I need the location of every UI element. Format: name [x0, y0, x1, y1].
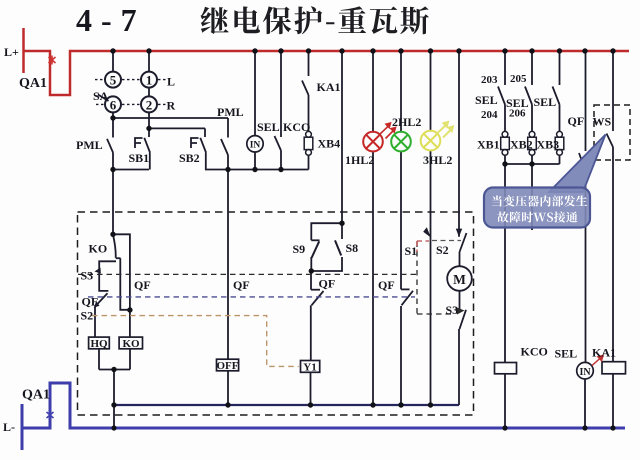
link XB4 lower lead	[308, 155, 310, 169]
coil KCO lower lead	[504, 374, 506, 428]
meter SEL-IN lower lead	[584, 380, 586, 429]
contact QF (Y1 column) blade	[312, 291, 324, 305]
lamp 2HL2 upper lead	[400, 51, 402, 133]
junction node KO branch	[110, 232, 115, 237]
linkage QF (purple dashed)	[88, 296, 415, 298]
link XB2 upper lead	[531, 105, 533, 132]
contact SEL-205 upper lead	[531, 51, 533, 85]
svg-text:S3: S3	[446, 303, 459, 317]
lamp 3HL2 (yellow)	[421, 131, 441, 151]
wire: rail to KO branch node	[112, 170, 114, 235]
svg-text:S2: S2	[436, 243, 449, 257]
svg-text:203: 203	[481, 74, 498, 86]
svg-text:4-7: 4-7	[76, 2, 146, 38]
svg-text:204: 204	[481, 109, 498, 121]
switch PML1 blade	[107, 139, 113, 153]
wire: bus to SA contact 5	[112, 51, 114, 72]
linkage S1 (red dashes)	[417, 241, 429, 252]
contact QF (Y1 column) upper lead	[310, 271, 312, 290]
contact QF (HQ column) blade	[95, 293, 108, 307]
contact SA-6 circle	[105, 96, 121, 112]
motor M upper lead	[459, 252, 461, 266]
wire: QF contact to rail	[400, 306, 402, 405]
title 继电保护-重瓦斯 (outline paths)	[201, 6, 429, 34]
wire: L+ bus with QA1 step	[24, 51, 629, 95]
wire: PML1/SB1 join rail	[113, 169, 149, 171]
fault mark on QA1 (red asterisk)	[49, 56, 56, 65]
callout text	[492, 195, 587, 206]
svg-text:HQ: HQ	[90, 338, 108, 350]
wire: bus to SA contact 1	[148, 51, 150, 72]
lamp 2HL2 lead to QF contact	[400, 151, 402, 290]
svg-text:KCO: KCO	[283, 120, 310, 134]
wire: XB join to KCO coil	[504, 164, 506, 363]
svg-text:XB3: XB3	[537, 138, 560, 152]
pushbutton SB1 actuator	[135, 138, 143, 148]
contact S9 blade	[312, 241, 320, 258]
contact KA1 lower lead	[308, 95, 310, 132]
wire: XB2 column stub under callout	[531, 164, 533, 230]
linkage S3 vertical + to S3 contact	[417, 242, 452, 315]
link XB1 upper lead	[504, 105, 506, 132]
svg-text:M: M	[453, 272, 466, 287]
wire: SA 2 to node	[148, 112, 150, 128]
switch PML1 lower lead	[112, 153, 114, 170]
svg-text:IN: IN	[579, 367, 591, 378]
contact S3 blade (motor column)	[460, 310, 467, 329]
svg-text:QF: QF	[319, 277, 336, 291]
contact SEL-3 blade	[553, 87, 560, 105]
svg-text:5: 5	[110, 73, 117, 88]
contact QF (2HL2 column) blade	[402, 291, 414, 306]
junction dots XB join	[502, 161, 507, 166]
svg-text:S3: S3	[81, 269, 94, 283]
pushbutton SB1 lower lead	[149, 153, 151, 170]
svg-text:Y1: Y1	[303, 361, 316, 373]
relay WS dashed box	[594, 105, 630, 160]
junction node S8/S9 bottom	[309, 268, 314, 273]
wire: SA 1 to 2	[148, 88, 150, 97]
motor M lower lead	[459, 291, 461, 309]
contact SA-5 circle	[105, 72, 121, 88]
arrows at 3HL2	[437, 122, 453, 138]
contact S2 upper lead (motor column)	[458, 51, 460, 237]
linkage QF blade arrowhead (left)	[94, 301, 100, 308]
svg-text:SB1: SB1	[129, 151, 150, 165]
wire: KO blade tick	[116, 257, 121, 259]
link XB3 upper lead	[559, 105, 561, 132]
svg-text:IN: IN	[250, 140, 261, 150]
svg-text:KO: KO	[89, 242, 108, 256]
fault mark on QA1 bottom (blue asterisk)	[47, 411, 54, 420]
wire: join to inner rail and L- bus	[113, 370, 115, 429]
link XB2 lower lead	[531, 155, 533, 164]
wire: S9 to join node	[310, 257, 312, 271]
switch SA handle	[98, 95, 109, 102]
wire: S8 to join node	[311, 257, 342, 271]
svg-text:1: 1	[146, 73, 153, 88]
svg-text:PML: PML	[76, 138, 103, 152]
link XB2	[528, 131, 537, 155]
svg-text:QF: QF	[233, 278, 250, 292]
contact SA-1 circle	[141, 72, 157, 88]
meter SEL upper lead	[254, 51, 256, 136]
meter SEL lower lead	[254, 152, 256, 170]
contact KCO lower lead	[280, 151, 282, 170]
wire: node to PML2 branch	[113, 117, 228, 119]
svg-text:1HL2: 1HL2	[345, 153, 374, 167]
svg-text:QF: QF	[82, 295, 99, 309]
contact QF (Y1 column) tick	[311, 289, 320, 291]
linkage S2 (orange dashed)	[92, 316, 299, 367]
svg-text:L-: L-	[3, 420, 15, 434]
pushbutton SB1 upper lead	[148, 128, 150, 137]
svg-text:2: 2	[146, 97, 153, 112]
svg-text:KA1: KA1	[317, 80, 341, 94]
junction node HQ/KO join	[111, 367, 116, 372]
svg-text:L: L	[167, 75, 175, 89]
svg-text:2HL2: 2HL2	[392, 115, 421, 129]
junction dots on inner rail	[111, 402, 116, 407]
linkage S1 arrowhead	[423, 227, 431, 237]
svg-text:KCO: KCO	[521, 345, 548, 359]
contact S8 blade	[335, 240, 341, 255]
wire: node to SB2 branch	[149, 127, 205, 129]
svg-text:PML: PML	[217, 105, 244, 119]
svg-text:S9: S9	[293, 242, 306, 256]
contact SEL-203 upper lead	[504, 51, 506, 85]
junction node S8/S9 top	[339, 221, 344, 226]
svg-text:206: 206	[509, 108, 526, 120]
svg-text:205: 205	[510, 73, 527, 85]
contact WS upper lead	[612, 51, 614, 131]
contact S8 upper lead	[341, 223, 343, 239]
linkage S3 (black dashed)	[78, 273, 417, 275]
switch PML2 upper lead	[227, 118, 229, 138]
lamp 3HL2 lower lead to rail	[430, 150, 432, 405]
wire: SA 6 to node	[112, 112, 114, 118]
coil HQ upper lead	[94, 307, 96, 337]
switch PML2 blade	[221, 139, 228, 155]
svg-text:XB4: XB4	[318, 137, 341, 151]
lamp 1HL2 (red)	[363, 132, 383, 152]
button OFF upper lead	[227, 170, 229, 360]
svg-text:S2: S2	[81, 309, 94, 323]
junction dots on rail y169	[110, 167, 115, 172]
wire: node to KO coil column	[113, 234, 130, 337]
button OFF lower lead	[227, 371, 229, 405]
wire: XB join rail	[505, 163, 560, 165]
button OFF	[217, 359, 239, 371]
linkage S3 bracket arrow	[95, 268, 101, 274]
svg-text:QA1: QA1	[19, 76, 47, 91]
link XB3	[555, 131, 564, 155]
switch PML2 lower lead	[227, 155, 229, 170]
coil KA1 lower lead	[612, 374, 614, 428]
coil KCO (bottom)	[495, 363, 517, 374]
coil Y1 upper lead	[310, 305, 312, 360]
linkage S2 to contact (gray dashed)	[432, 240, 461, 242]
link XB4	[304, 131, 313, 155]
pushbutton SB2 actuator	[191, 138, 199, 148]
coil HQ lower lead	[98, 349, 100, 370]
wire: L- bus with QA1 step	[22, 383, 625, 428]
junction node under SA-2	[146, 126, 151, 131]
contact KO blade	[113, 236, 115, 258]
coil KA1 (bottom)	[602, 362, 626, 374]
lamp 3HL2 upper lead	[430, 51, 432, 132]
svg-text:SEL: SEL	[475, 93, 498, 107]
contact QF (right) blade	[579, 153, 586, 171]
contact S9 tick	[311, 239, 319, 241]
junction node KO coil top	[127, 307, 132, 312]
svg-text:OFF: OFF	[217, 360, 239, 372]
svg-text:S1: S1	[405, 244, 418, 258]
switch PML1 upper lead	[112, 118, 114, 138]
meter SEL-IN (bottom right)	[577, 362, 594, 379]
svg-text:6: 6	[110, 97, 117, 112]
svg-text:QF: QF	[378, 278, 395, 292]
contact QF (2HL2 column) tick	[401, 288, 410, 290]
motor M	[447, 266, 472, 291]
lamp 1HL2 lower lead to rail	[372, 151, 374, 405]
junction dots on L+ bus	[110, 48, 115, 53]
link XB1	[501, 131, 510, 155]
pushbutton SB2 upper lead	[204, 128, 206, 137]
linkage S3 arrowhead	[456, 307, 465, 315]
svg-text:S8: S8	[346, 241, 359, 255]
node L- terminal stub	[21, 404, 24, 450]
wire: bus to S8/S9 node	[341, 51, 343, 223]
wire: SB2..XB4 join rail	[205, 169, 309, 171]
contact KCO upper lead	[280, 51, 282, 137]
linkage S2 arrowhead	[456, 229, 462, 237]
meter SEL-IN (top)	[247, 136, 263, 152]
contact SEL-3 upper lead	[559, 51, 561, 85]
svg-text:XB1: XB1	[477, 138, 500, 152]
wire: WS to KA1 coil	[612, 147, 614, 362]
wire: inner rail	[114, 404, 459, 406]
contact SEL-203 blade	[498, 87, 505, 105]
contact KA1 blade	[302, 81, 309, 96]
contact WS blade	[607, 134, 614, 148]
lamp 2HL2 (green)	[391, 132, 411, 152]
contact QF (right) upper lead	[585, 51, 587, 151]
svg-text:QF: QF	[568, 114, 585, 128]
wire: motor column to rail	[458, 329, 460, 405]
coil HQ	[89, 337, 110, 349]
svg-text:R: R	[167, 99, 176, 113]
callout pointer	[549, 135, 606, 193]
coil KO	[119, 337, 142, 349]
svg-text:SEL: SEL	[555, 347, 578, 361]
pushbutton SB2 blade	[200, 138, 206, 153]
callout bubble	[484, 188, 590, 228]
wire: S9 branch top	[311, 223, 342, 240]
contact KCO blade	[275, 136, 282, 151]
svg-text:SEL: SEL	[257, 120, 280, 134]
linkage dotted ties SA row1	[95, 80, 166, 105]
junction node under SA-6	[110, 115, 115, 120]
coil KO lower lead	[129, 349, 131, 370]
contact SEL-205 blade	[525, 87, 532, 105]
contact KA1 upper lead	[308, 51, 310, 76]
svg-text:KA1: KA1	[592, 346, 616, 360]
pushbutton SB2 lower lead	[205, 153, 207, 170]
svg-text:SB2: SB2	[179, 151, 200, 165]
svg-text:QF: QF	[134, 278, 151, 292]
coil Y1 lower lead	[310, 372, 312, 405]
svg-text:L+: L+	[4, 45, 19, 59]
link XB1 lower lead	[504, 155, 506, 164]
lamp 1HL2 upper lead	[372, 51, 374, 133]
junction dots on L- bus	[111, 425, 116, 430]
contact SA-2 circle	[141, 96, 157, 112]
arrows at 1HL2	[380, 123, 396, 139]
svg-text:SA: SA	[93, 89, 109, 103]
pushbutton SB1 blade	[144, 138, 150, 153]
wire: KO contact lower path	[120, 258, 130, 310]
svg-text:KO: KO	[122, 338, 140, 350]
wire: HQ/KO join	[99, 369, 130, 371]
node L+ terminal stub	[22, 28, 25, 73]
link XB3 lower lead	[559, 155, 561, 164]
svg-text:QA1: QA1	[22, 388, 50, 403]
wire: QF to SEL-IN meter	[585, 171, 587, 362]
linkage S3 bracket	[99, 261, 116, 291]
contact S2 blade	[460, 233, 467, 252]
coil Y1	[301, 361, 320, 373]
svg-text:WS: WS	[593, 115, 612, 129]
arrow to KA1 (red)	[592, 356, 603, 366]
svg-text:3HL2: 3HL2	[423, 153, 452, 167]
svg-text:SEL: SEL	[534, 95, 557, 109]
svg-text:XB2: XB2	[510, 138, 533, 152]
